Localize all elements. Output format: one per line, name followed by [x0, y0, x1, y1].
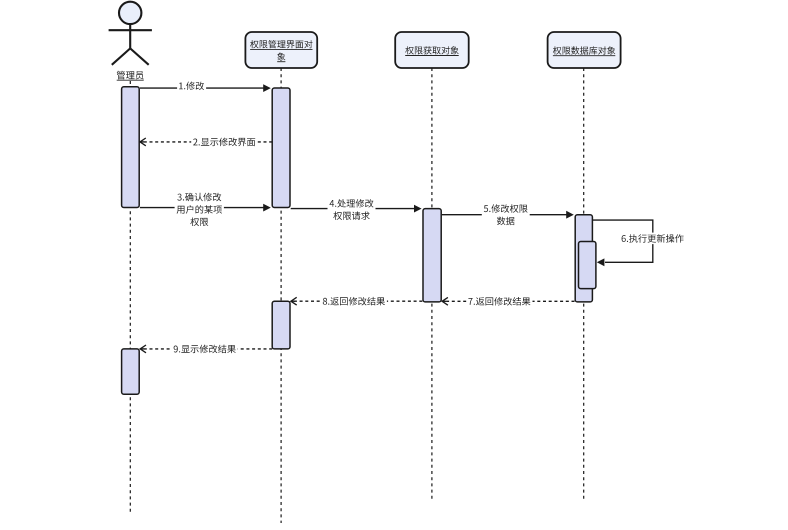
activation bar 权限获取对象 — [423, 209, 441, 302]
actor 管理员 — [109, 2, 152, 65]
message 5 arrow — [442, 211, 574, 219]
actor label 管理员 — [115, 69, 146, 81]
object box 权限获取对象 — [395, 32, 469, 68]
activation bar 管理员 A — [122, 87, 140, 208]
message 6 label 6.执行更新操作 — [620, 233, 686, 245]
object box 权限管理界面对象 — [245, 32, 317, 68]
activation bar 权限数据库对象 — [575, 215, 592, 302]
object box 权限数据库对象 — [548, 32, 621, 68]
message 6 self call — [592, 220, 652, 266]
message 4 arrow — [291, 205, 422, 213]
message 9 arrow — [140, 345, 272, 353]
message 4 label 4.处理修改 权限请求 — [328, 198, 376, 222]
message 5 label 5.修改权限 数据 — [482, 203, 530, 227]
message 7 arrow — [442, 297, 574, 305]
message 9 label 9.显示修改结果 — [172, 343, 238, 355]
message 2 label 2.显示修改界面 — [191, 136, 257, 148]
message 2 arrow — [140, 138, 272, 146]
message 8 arrow — [291, 297, 422, 305]
activation bar 权限管理界面对象 A — [272, 88, 290, 208]
message 8 label 8.返回修改结果 — [321, 295, 387, 307]
lifeline 权限数据库对象 — [583, 68, 585, 499]
lifeline 权限获取对象 — [431, 68, 433, 499]
activation bar 管理员 B — [122, 349, 140, 394]
lifeline 权限管理界面对象 — [280, 68, 282, 523]
message 3 arrow — [140, 204, 271, 212]
activation bar 权限管理界面对象 B — [272, 301, 290, 349]
message 7 label 7.返回修改结果 — [466, 296, 532, 308]
message 3 label 3.确认修改 用户的某项 权限 — [175, 191, 224, 227]
nested activation bar 权限数据库对象 — [579, 242, 596, 289]
message 1 label 1.修改 — [177, 80, 206, 92]
lifeline 管理员 — [129, 81, 131, 512]
message 1 arrow — [140, 84, 271, 92]
